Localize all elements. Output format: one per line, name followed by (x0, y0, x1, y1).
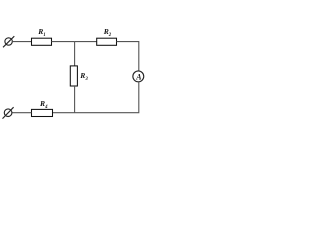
terminal T2 (bottom-left input) (3, 107, 14, 118)
svg-text:A: A (135, 73, 141, 82)
resistor R1 (32, 38, 52, 45)
wire R4 to terminal T2 (12, 112, 32, 114)
wire ammeter to bottom-right corner (53, 82, 139, 113)
wire R3 to bottom wire node B (74, 86, 76, 113)
resistor R3 (70, 66, 77, 86)
resistor R4 (32, 109, 53, 116)
wire R2 to top-right corner (117, 42, 139, 71)
wire node A to R2 (75, 41, 97, 43)
wire R1 to node A (52, 41, 75, 43)
wire T1 to R1 (12, 41, 31, 43)
resistor R2 (97, 38, 117, 45)
ammeter A1 (133, 71, 144, 82)
terminal T1 (top-left input) (3, 36, 14, 47)
wire node A down to R3 (74, 42, 76, 66)
